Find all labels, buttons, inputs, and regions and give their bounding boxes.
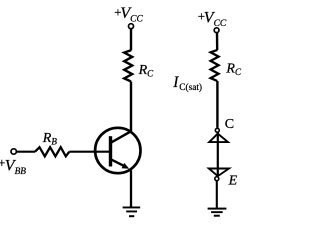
terminal VCC left bbox=[129, 24, 134, 29]
junction triangle lower (points down to E) bbox=[209, 169, 229, 177]
terminal VCC right bbox=[214, 28, 219, 33]
transistor Q1 collector lead bbox=[111, 131, 132, 143]
svg-text:VBB: VBB bbox=[5, 157, 26, 177]
svg-text:C: C bbox=[225, 117, 234, 132]
junction triangle upper (points up to C) bbox=[209, 134, 228, 143]
wire RC to collector bbox=[130, 82, 132, 132]
svg-text:C(sat): C(sat) bbox=[179, 82, 202, 93]
node E terminal circle bbox=[215, 177, 219, 181]
resistor RC right bbox=[211, 50, 219, 81]
wire through junction triangles bbox=[217, 133, 219, 177]
svg-text:VCC: VCC bbox=[120, 5, 143, 25]
terminal VBB input bbox=[11, 149, 16, 154]
svg-text:E: E bbox=[228, 173, 238, 188]
wire input to RB bbox=[17, 151, 35, 153]
transistor Q1 base bar bbox=[109, 136, 112, 166]
ground right bbox=[208, 208, 227, 210]
node C terminal circle bbox=[215, 128, 219, 132]
svg-text:RC: RC bbox=[138, 63, 155, 79]
wire emitter down bbox=[130, 170, 132, 207]
transistor Q1 circle bbox=[95, 128, 140, 173]
resistor RC left bbox=[124, 50, 132, 81]
ground left bbox=[123, 207, 141, 209]
transistor Q1 emitter lead with arrow bbox=[111, 159, 125, 166]
svg-text:I: I bbox=[172, 74, 179, 91]
wire VCC to RC left bbox=[130, 29, 132, 51]
svg-text:RC: RC bbox=[225, 61, 242, 77]
wire E to ground bbox=[216, 181, 218, 208]
svg-text:VCC: VCC bbox=[204, 9, 227, 29]
resistor RB bbox=[35, 147, 69, 156]
wire VCC to RC right bbox=[216, 33, 219, 50]
wire RB to base bbox=[69, 151, 110, 153]
wire RC to node C bbox=[216, 81, 218, 128]
svg-text:RB: RB bbox=[42, 131, 58, 147]
